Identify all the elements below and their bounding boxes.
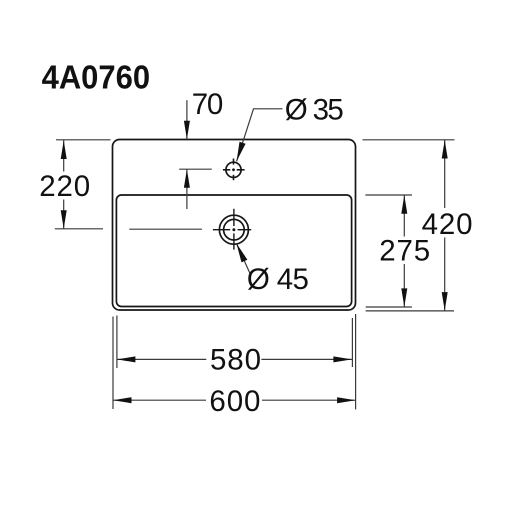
arrowhead leader d45 [236, 243, 247, 262]
extension line left drain level (220 bottom) [55, 228, 103, 230]
svg-text:Ø 45: Ø 45 [247, 263, 309, 296]
extension line bottom right 580 [351, 318, 353, 367]
arrowhead 70 up [184, 169, 190, 188]
svg-text:275: 275 [379, 234, 430, 267]
dimension line 220 [63, 140, 65, 172]
svg-text:220: 220 [39, 170, 90, 203]
drain crosshair centerlines [213, 209, 251, 250]
tap hole crosshair ticks [223, 159, 245, 181]
extension line bottom left 580 [116, 316, 118, 369]
leader line d45 [236, 243, 250, 275]
svg-text:580: 580 [210, 343, 261, 376]
dimension line 580 [117, 358, 206, 360]
svg-text:70: 70 [192, 88, 224, 121]
extension line bottom left 600 [112, 317, 114, 410]
extension line right inner top (275 top) [365, 194, 412, 196]
arrowhead leader d35 [237, 142, 246, 162]
dimension line 70 [186, 100, 188, 139]
arrowhead 580 right [333, 356, 352, 362]
washbasin inner basin outline [116, 195, 351, 307]
leader line d35 [237, 109, 283, 162]
arrowhead 580 left [117, 356, 135, 362]
dimension line 275 [403, 195, 405, 236]
extension line tap hole level [179, 168, 212, 170]
extension line bottom right 600 [355, 314, 357, 409]
arrowhead 420 up [442, 140, 448, 159]
arrowhead 275 down [401, 288, 407, 307]
arrowhead 220 down [61, 210, 67, 229]
arrowhead 220 up [61, 141, 67, 160]
svg-text:4A0760: 4A0760 [42, 58, 151, 95]
arrowhead 600 right [337, 397, 356, 403]
drain center dot [232, 228, 235, 231]
arrowhead 600 left [113, 397, 132, 403]
tap hole circle [226, 162, 241, 177]
drain inner circle [224, 219, 245, 240]
dimension line 600 [113, 399, 206, 401]
drain outer circle [219, 215, 248, 244]
arrowhead 70 down [184, 121, 190, 140]
extension line top left (220 top) [56, 139, 111, 141]
dimension line 420 [444, 140, 446, 208]
tap hole center dot [232, 168, 235, 171]
arrowhead 420 down [442, 292, 448, 311]
arrowhead 275 up [401, 195, 407, 214]
washbasin outer outline [113, 140, 356, 311]
svg-text:Ø 35: Ø 35 [285, 94, 344, 127]
svg-text:600: 600 [209, 385, 260, 418]
extension line right inner bottom (275 bottom) [366, 306, 412, 308]
drain centerline to left rim [129, 228, 202, 230]
extension line right outer bottom (420 bottom) [366, 310, 454, 312]
extension line top right (420 top) [363, 139, 455, 141]
